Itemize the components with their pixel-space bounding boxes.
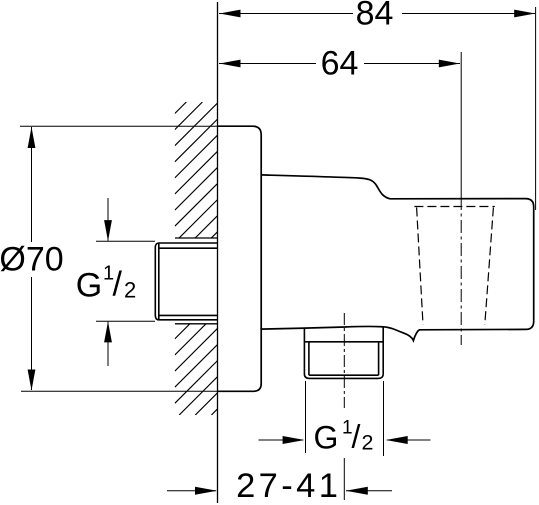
- dimension 84: left arrowhead: [220, 10, 241, 18]
- svg-text:G: G: [76, 267, 102, 305]
- wall hole upper edge: [175, 237, 218, 239]
- dimension 64: right arrowhead: [439, 60, 460, 68]
- dimension 84: dimension line: [219, 13, 535, 15]
- dimension diameter 70: top arrowhead: [28, 127, 36, 148]
- dimension 64: left arrowhead: [220, 60, 241, 68]
- dimension 64: dimension line: [219, 63, 460, 65]
- dimension outlet G 1/2: right arrowhead: [386, 436, 408, 444]
- dimension inlet G 1/2: upper arrowhead: [104, 220, 112, 241]
- dimension inlet G 1/2: lower arrowhead: [104, 321, 112, 342]
- dimension 84: right arrowhead: [514, 10, 535, 18]
- dimension diameter 70: extension lines: [20, 126, 217, 391]
- dimension diameter 70: bottom arrowhead: [28, 370, 36, 391]
- dimension inlet G 1/2: value text: [76, 263, 136, 305]
- wall section hatching: [175, 102, 218, 415]
- svg-text:G: G: [314, 420, 339, 456]
- outlet boss centerline: [343, 313, 345, 408]
- dimension 27-41: dimension line tails: [167, 490, 392, 492]
- svg-text:2: 2: [362, 431, 374, 455]
- svg-text:Ø70: Ø70: [0, 240, 64, 278]
- dimension inlet G 1/2: extension lines: [96, 241, 155, 321]
- dimension 27-41: left arrowhead: [195, 487, 217, 495]
- dimension inlet G 1/2: dimension line tails: [107, 198, 109, 366]
- dimension outlet G 1/2: left arrowhead: [283, 436, 305, 444]
- dimension diameter 70: dimension line: [31, 127, 33, 390]
- holder body outline: [260, 175, 533, 341]
- bottom outlet threaded boss: [304, 327, 383, 378]
- svg-text:64: 64: [321, 44, 359, 82]
- dimension 84: extension line right: [535, 7, 537, 210]
- escutcheon flange outline: [217, 126, 261, 391]
- dimension outlet G 1/2: extension lines: [306, 381, 384, 456]
- svg-text:2: 2: [124, 278, 136, 303]
- wall hole lower edge: [175, 323, 218, 325]
- hidden holder cone (dashed): [414, 207, 494, 325]
- dimension outlet G 1/2: value text: [314, 418, 374, 456]
- svg-text:/: /: [352, 419, 361, 455]
- cone centerline / 64 extension line: [460, 52, 462, 197]
- svg-text:/: /: [113, 266, 123, 304]
- left inlet threaded fitting: [155, 243, 218, 320]
- dimension outlet G 1/2: dimension line tails: [259, 439, 431, 441]
- dimension 27-41: right arrowhead: [346, 487, 368, 495]
- svg-text:84: 84: [356, 0, 394, 32]
- svg-text:27-41: 27-41: [236, 467, 341, 505]
- wall surface line: [217, 2, 219, 503]
